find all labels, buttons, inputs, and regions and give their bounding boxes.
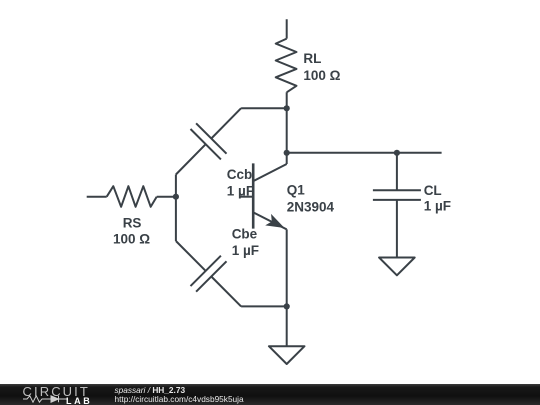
ground emitter [269, 346, 305, 364]
svg-text:Ccb: Ccb [227, 167, 253, 182]
svg-text:RL: RL [303, 51, 321, 66]
wire emitter vertical [286, 229, 288, 306]
transistor Q1 [240, 163, 287, 229]
node CL junction [394, 150, 400, 156]
CircuitLab logo LAB text [66, 396, 92, 405]
label Ccb value [227, 167, 254, 199]
wire emitter to ground [286, 306, 288, 346]
node RL bottom junction [284, 105, 290, 111]
svg-text:Cbe: Cbe [232, 227, 258, 242]
label RL value [303, 51, 340, 83]
wire Cbe to emitter node [241, 305, 287, 307]
capacitor CL [373, 153, 421, 258]
label Cbe value [232, 227, 259, 258]
resistor RL [276, 19, 297, 107]
CircuitLab logo wordmark [23, 384, 90, 399]
label CL value [424, 183, 451, 214]
wire collector node to right [287, 152, 442, 154]
capacitor Cbe [176, 241, 241, 306]
svg-text:100 Ω: 100 Ω [303, 68, 340, 83]
wire collector vertical [286, 108, 288, 164]
svg-text:Q1: Q1 [287, 182, 306, 197]
node base junction [173, 194, 179, 200]
CircuitLab logo wire-diode glyph [23, 395, 69, 403]
wire base node vertical up [175, 175, 177, 197]
svg-text:1 µF: 1 µF [424, 199, 451, 214]
footer url text [115, 394, 244, 404]
svg-text:1 µF: 1 µF [232, 243, 259, 258]
wire Ccb to collector node [241, 107, 287, 109]
footer bar [0, 384, 540, 405]
ground CL [379, 258, 415, 276]
label RS value [113, 216, 150, 247]
resistor RS [87, 186, 176, 207]
svg-text:100 Ω: 100 Ω [113, 232, 150, 247]
node collector junction [284, 150, 290, 156]
svg-text:RS: RS [123, 216, 142, 231]
svg-text:CL: CL [424, 183, 442, 198]
footer title text [115, 385, 186, 395]
node emitter junction [284, 303, 290, 309]
label Q1 value [287, 182, 335, 214]
capacitor Ccb [176, 108, 241, 174]
svg-text:2N3904: 2N3904 [287, 199, 335, 214]
wire base node vertical down [175, 197, 177, 241]
